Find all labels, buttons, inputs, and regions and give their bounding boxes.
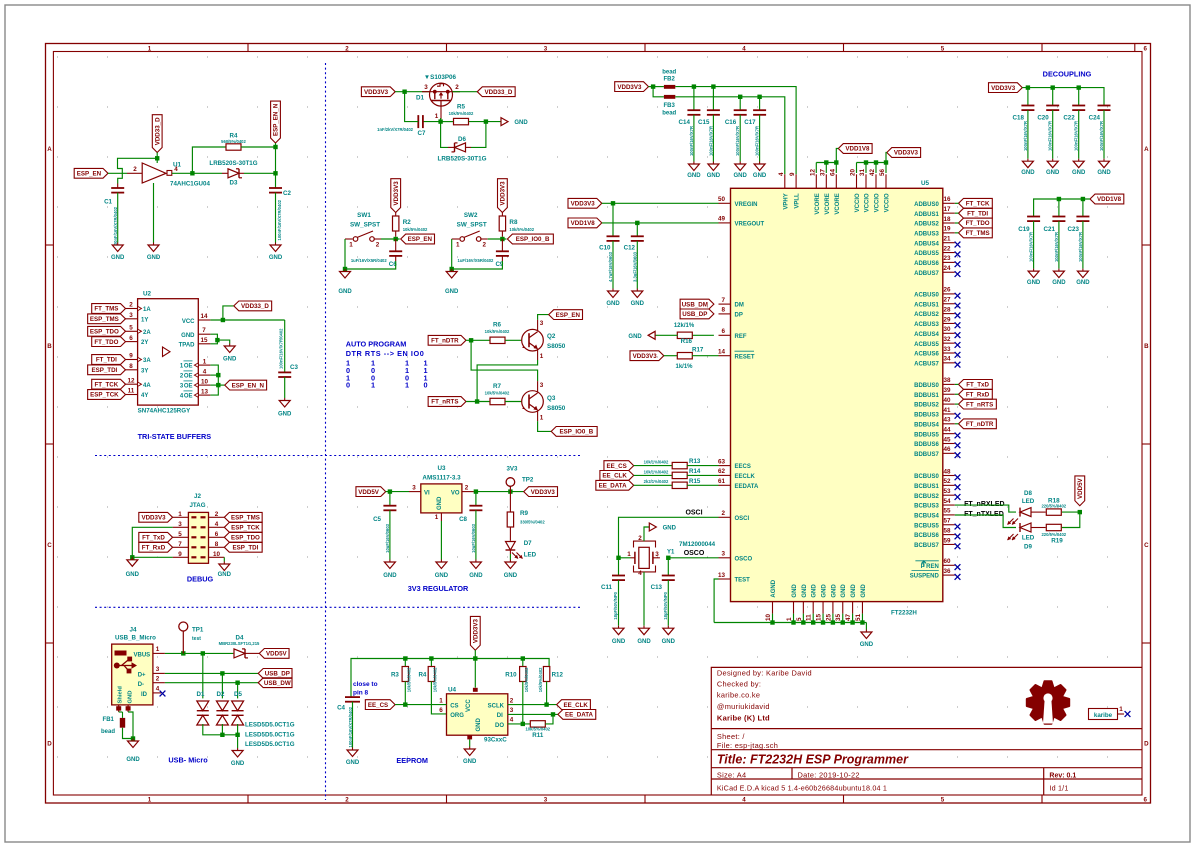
svg-text:DP: DP bbox=[735, 313, 743, 319]
J2 pin 2 lead right bbox=[209, 516, 225, 518]
wire gnd pin drop bbox=[842, 614, 844, 623]
wire U5 bottom gnd rail bbox=[714, 622, 866, 624]
svg-text:USB_DM: USB_DM bbox=[682, 301, 708, 308]
svg-text:A: A bbox=[1144, 146, 1149, 153]
ground below D7 bbox=[509, 560, 511, 563]
svg-text:RESET: RESET bbox=[735, 354, 755, 360]
svg-text:3V3: 3V3 bbox=[506, 466, 518, 473]
svg-text:BDBUS4: BDBUS4 bbox=[914, 422, 939, 428]
svg-text:VCCIO: VCCIO bbox=[885, 193, 891, 212]
svg-text:ACBUS0: ACBUS0 bbox=[914, 293, 939, 299]
U5 pin 61 EEDATA bbox=[719, 484, 731, 486]
svg-text:C24: C24 bbox=[1089, 115, 1101, 122]
wire C6 to gnd rail bbox=[395, 256, 397, 261]
U5 pin 22 ADBUS5 bbox=[943, 252, 955, 254]
svg-text:C8: C8 bbox=[459, 516, 467, 523]
J4 bottom pin stubs bbox=[116, 706, 121, 710]
U5 pin 37 VCORE bbox=[825, 174, 827, 188]
svg-text:VDD3V3: VDD3V3 bbox=[633, 353, 658, 360]
wire VCORE drop bbox=[835, 163, 837, 174]
U2 pin 3 1Y with label ESP_TMS bbox=[126, 318, 138, 320]
svg-text:1uF/16V/X5R/0402: 1uF/16V/X5R/0402 bbox=[351, 258, 388, 263]
wire C12 to GND bbox=[636, 241, 638, 289]
svg-text:S8050: S8050 bbox=[547, 405, 566, 412]
ground below C4 bbox=[352, 748, 354, 751]
ground below C1 bbox=[117, 243, 119, 246]
wire R10 to DO bbox=[522, 681, 524, 724]
ground below C23 bbox=[1082, 269, 1084, 272]
junction D2 drop bbox=[220, 671, 224, 675]
resistor R14 bbox=[672, 472, 687, 478]
svg-text:11: 11 bbox=[806, 614, 813, 621]
svg-text:3: 3 bbox=[412, 484, 416, 491]
svg-text:karibe.co.ke: karibe.co.ke bbox=[717, 691, 760, 700]
LED D9 bbox=[1020, 523, 1031, 532]
ground below J4 bbox=[132, 739, 134, 742]
U5 pin 55 BCBUS4 bbox=[943, 514, 955, 516]
svg-text:ACBUS2: ACBUS2 bbox=[914, 312, 939, 318]
junction VCC bbox=[221, 318, 225, 322]
junction C17 bbox=[757, 95, 761, 99]
resistor R16 REF bbox=[692, 334, 714, 336]
svg-text:15: 15 bbox=[815, 613, 822, 621]
svg-text:TRI-STATE BUFFERS: TRI-STATE BUFFERS bbox=[138, 432, 212, 441]
svg-text:AMS1117-3.3: AMS1117-3.3 bbox=[422, 475, 461, 482]
svg-text:C13: C13 bbox=[651, 584, 663, 591]
wire VCORE drop bbox=[825, 163, 827, 174]
svg-text:100nF/16V/X7R: 100nF/16V/X7R bbox=[1099, 121, 1104, 151]
svg-text:GND: GND bbox=[126, 572, 140, 578]
glabel FT_TDO at ADBUS2 bbox=[959, 218, 993, 228]
wire VCORE drop bbox=[815, 163, 817, 174]
svg-text:C20: C20 bbox=[1037, 115, 1049, 122]
svg-text:FB2: FB2 bbox=[664, 77, 676, 83]
svg-text:VDD1V8: VDD1V8 bbox=[1097, 196, 1122, 203]
U5 pin 45 BDBUS6 bbox=[943, 443, 955, 445]
svg-text:50: 50 bbox=[718, 196, 726, 203]
svg-text:MBR230LSFT1G,215: MBR230LSFT1G,215 bbox=[219, 641, 260, 646]
J2 pin 6 lead right bbox=[209, 536, 225, 538]
svg-text:45: 45 bbox=[943, 436, 951, 443]
U5 pin 19 ADBUS3 bbox=[943, 232, 955, 234]
svg-text:LED: LED bbox=[1022, 535, 1035, 542]
svg-text:1: 1 bbox=[371, 381, 375, 390]
svg-text:C19: C19 bbox=[1018, 226, 1030, 233]
svg-text:OSCI: OSCI bbox=[735, 516, 750, 522]
U5 pin 51 GND bbox=[861, 602, 863, 614]
frame column ticks bbox=[247, 44, 249, 52]
svg-text:0: 0 bbox=[346, 381, 350, 390]
diode D6 LRB520S-30T1G bbox=[455, 143, 466, 152]
svg-text:close to: close to bbox=[353, 681, 378, 688]
resistor R17 RESET bbox=[630, 351, 664, 361]
svg-text:GND: GND bbox=[383, 573, 397, 579]
wire FT_nDTR to R6 bbox=[466, 339, 490, 341]
U2 pin 13 4OE bbox=[198, 394, 210, 396]
ground below C17 bbox=[759, 162, 761, 165]
svg-text:100nF/16V/X7R: 100nF/16V/X7R bbox=[1074, 121, 1079, 151]
svg-text:TP2: TP2 bbox=[522, 477, 534, 484]
svg-text:D3: D3 bbox=[230, 180, 238, 187]
svg-text:R19: R19 bbox=[1051, 538, 1063, 545]
Q1 gate lead down bbox=[440, 106, 442, 119]
svg-text:GND: GND bbox=[338, 289, 352, 295]
svg-text:1A: 1A bbox=[143, 307, 151, 313]
U5 pin 42 VCCIO bbox=[875, 174, 877, 188]
svg-text:Q3: Q3 bbox=[547, 395, 556, 402]
wire U1 output bbox=[172, 172, 192, 174]
ground below crystal bbox=[643, 626, 645, 629]
svg-text:VDD5V: VDD5V bbox=[266, 651, 288, 658]
U5 pin 26 ACBUS0 bbox=[943, 293, 955, 295]
wire gnd pin drop bbox=[822, 614, 824, 623]
junction VDD5V led bbox=[1078, 510, 1082, 514]
svg-text:R12: R12 bbox=[552, 672, 564, 679]
svg-text:▼S103P06: ▼S103P06 bbox=[424, 74, 457, 81]
transistor Q3 S8050 bbox=[522, 391, 544, 413]
wire C22 to GND bbox=[1078, 110, 1080, 159]
svg-text:D: D bbox=[1144, 741, 1149, 748]
svg-text:ACBUS6: ACBUS6 bbox=[914, 352, 939, 358]
pin 2 lead of U1 bbox=[127, 172, 142, 174]
junction C10 bbox=[611, 201, 615, 205]
svg-text:1nF/2kV/X7R/0402: 1nF/2kV/X7R/0402 bbox=[377, 127, 414, 132]
wire D2 vertical bbox=[221, 673, 223, 698]
svg-text:U5: U5 bbox=[921, 180, 930, 187]
svg-text:100nF/16V/X7R: 100nF/16V/X7R bbox=[689, 126, 694, 156]
wire C23 to GND bbox=[1082, 221, 1084, 269]
wire decoupling 1v8 rail bbox=[1034, 199, 1090, 217]
svg-text:4: 4 bbox=[510, 717, 514, 724]
svg-text:GND: GND bbox=[223, 357, 237, 363]
svg-text:BCBUS6: BCBUS6 bbox=[914, 533, 939, 539]
ground below C10 bbox=[612, 289, 614, 292]
svg-text:16: 16 bbox=[943, 196, 951, 203]
svg-text:59: 59 bbox=[943, 537, 951, 544]
svg-text:74AHC1GU04: 74AHC1GU04 bbox=[170, 181, 210, 188]
svg-text:C5: C5 bbox=[373, 516, 381, 523]
svg-text:FT_nRTS: FT_nRTS bbox=[966, 401, 993, 408]
wire OSCI net bbox=[619, 517, 719, 558]
resistor R3 bbox=[404, 659, 406, 667]
wires OE bus bbox=[210, 365, 218, 395]
svg-text:4: 4 bbox=[156, 686, 160, 693]
svg-text:2: 2 bbox=[345, 797, 349, 804]
glabel FT_nRTS at BDBUS2 bbox=[959, 399, 997, 409]
svg-text:2: 2 bbox=[465, 484, 469, 491]
svg-text:27: 27 bbox=[943, 297, 951, 304]
svg-text:BDBUS3: BDBUS3 bbox=[914, 413, 939, 419]
svg-text:BCBUS1: BCBUS1 bbox=[914, 484, 939, 490]
ferrite bead FB2 bbox=[664, 85, 675, 89]
svg-text:GND: GND bbox=[218, 572, 232, 578]
TVS diode D1 bbox=[197, 701, 209, 711]
U2 pin 5 2A with label ESP_TDO bbox=[126, 330, 138, 332]
svg-text:FT_TDI: FT_TDI bbox=[96, 357, 117, 364]
capacitor C4 bbox=[345, 696, 360, 698]
wire J2 pin3 to GND bbox=[132, 527, 172, 557]
capacitor C5 bbox=[389, 492, 391, 506]
svg-text:10k/5%/0402: 10k/5%/0402 bbox=[509, 227, 534, 232]
svg-text:VCORE: VCORE bbox=[815, 193, 821, 214]
U2 pin 9 3A with label FT_TDI bbox=[126, 359, 138, 361]
resistor R10 bbox=[522, 659, 524, 667]
svg-text:EE_CLK: EE_CLK bbox=[602, 473, 627, 480]
connector J2 JTAG body bbox=[188, 512, 208, 563]
svg-text:ACBUS1: ACBUS1 bbox=[914, 302, 939, 308]
svg-text:4: 4 bbox=[742, 797, 746, 804]
svg-text:SUSPEND: SUSPEND bbox=[910, 574, 940, 580]
U5 pin 11 GND bbox=[812, 602, 814, 614]
junction R10 top bbox=[521, 656, 525, 660]
U2 pin 6 2Y with label FT_TDO bbox=[126, 341, 138, 343]
glabel ESP_TDO at J2 pin6 bbox=[224, 532, 262, 542]
svg-text:C10: C10 bbox=[599, 245, 611, 252]
svg-text:D7: D7 bbox=[524, 540, 532, 547]
wire C1 to GND bbox=[117, 193, 119, 243]
svg-text:R3: R3 bbox=[391, 672, 399, 679]
junction C15 bbox=[711, 84, 715, 88]
wire FB1 to gnd rail bbox=[123, 728, 134, 739]
resistor R13 bbox=[672, 462, 687, 468]
svg-text:DEBUG: DEBUG bbox=[187, 575, 214, 584]
junction R5 right bbox=[484, 119, 488, 123]
glabel VDD3V3 decoupling bbox=[989, 83, 1023, 93]
svg-text:Q2: Q2 bbox=[547, 333, 556, 340]
power label VDD5V at leds bbox=[1075, 476, 1085, 506]
U5 pin 48 BCBUS0 bbox=[943, 475, 955, 477]
tri-state buffer U2 body bbox=[138, 299, 199, 405]
svg-text:2: 2 bbox=[129, 302, 133, 309]
capacitor C8 bbox=[475, 492, 477, 506]
wire C3 to GND bbox=[284, 377, 286, 398]
U5 pin 21 ADBUS4 bbox=[943, 242, 955, 244]
capacitor C19 bbox=[1027, 216, 1040, 218]
svg-text:4Y: 4Y bbox=[141, 393, 148, 399]
glabel USB_DP to DP bbox=[680, 309, 714, 319]
svg-text:C: C bbox=[1144, 542, 1149, 549]
svg-text:100nF/16V/X7R: 100nF/16V/X7R bbox=[1054, 232, 1059, 262]
svg-text:GND: GND bbox=[278, 412, 292, 418]
svg-text:DI: DI bbox=[497, 713, 503, 719]
wire C4 to GND bbox=[352, 702, 354, 748]
wire BCBUS4 to D9 bbox=[955, 515, 1016, 528]
U5 pin 46 BDBUS7 bbox=[943, 452, 955, 454]
svg-text:62: 62 bbox=[718, 468, 726, 475]
U5 pin 31 VCCIO bbox=[865, 174, 867, 188]
svg-text:220/5%/0402: 220/5%/0402 bbox=[1041, 532, 1066, 537]
svg-text:20: 20 bbox=[850, 168, 857, 176]
svg-text:10uF/16V/0603: 10uF/16V/0603 bbox=[385, 523, 390, 553]
svg-text:42: 42 bbox=[869, 168, 876, 176]
U5 pin 36 SUSPEND bbox=[943, 574, 955, 576]
svg-text:ESP_EN: ESP_EN bbox=[408, 236, 433, 243]
wire TEST to gnd rail bbox=[714, 579, 718, 623]
junction C5 bbox=[388, 489, 392, 493]
svg-text:1: 1 bbox=[540, 415, 544, 422]
svg-text:14: 14 bbox=[718, 349, 726, 356]
frame row ticks bbox=[46, 244, 54, 246]
wire R18 to VDD5V bbox=[1062, 511, 1080, 513]
wire R17 to RESET bbox=[692, 355, 719, 357]
svg-text:41: 41 bbox=[943, 407, 951, 414]
wire gnd pin drop bbox=[832, 614, 834, 623]
wire R13 to EECS bbox=[687, 465, 719, 467]
svg-text:C18: C18 bbox=[1013, 115, 1025, 122]
capacitor C7 bbox=[417, 115, 419, 128]
svg-text:C7: C7 bbox=[418, 130, 426, 137]
svg-text:R4: R4 bbox=[418, 672, 426, 679]
svg-text:25: 25 bbox=[825, 613, 832, 621]
svg-text:44: 44 bbox=[943, 426, 951, 433]
resistor R12 bbox=[547, 666, 550, 668]
svg-text:GND: GND bbox=[831, 584, 837, 598]
wire FB3 rail to VPHY bbox=[675, 97, 785, 175]
resistor R6 bbox=[490, 337, 505, 343]
svg-text:Id 1/1: Id 1/1 bbox=[1049, 784, 1068, 793]
svg-text:54: 54 bbox=[943, 498, 951, 505]
svg-text:BDBUS2: BDBUS2 bbox=[914, 403, 939, 409]
ground at J2 right bbox=[223, 562, 225, 565]
ground below SW1 bbox=[344, 269, 346, 272]
junction J2 gnd bbox=[130, 555, 134, 559]
svg-text:10k/5%/0402: 10k/5%/0402 bbox=[485, 329, 510, 334]
svg-text:26: 26 bbox=[943, 287, 951, 294]
glabel ESP_EN at Q2 bbox=[549, 310, 583, 320]
svg-text:USB_DW: USB_DW bbox=[264, 680, 291, 687]
svg-text:ESP_TCK: ESP_TCK bbox=[231, 525, 260, 532]
svg-text:C16: C16 bbox=[725, 119, 737, 126]
svg-text:FT_nDTR: FT_nDTR bbox=[966, 421, 994, 428]
svg-text:Sheet: /: Sheet: / bbox=[717, 732, 746, 741]
svg-text:Title: FT2232H ESP Programmer: Title: FT2232H ESP Programmer bbox=[717, 753, 909, 767]
wires TVS to gnd rail bbox=[203, 724, 238, 748]
U5 pin 15 GND bbox=[822, 602, 824, 614]
junction C14 bbox=[692, 84, 696, 88]
svg-text:15: 15 bbox=[200, 337, 208, 344]
svg-text:VREGOUT: VREGOUT bbox=[735, 222, 765, 228]
wire C13 to GND bbox=[667, 580, 669, 626]
schematic frame inner bbox=[53, 52, 1142, 796]
glabel FT_TxD at J2 pin5 bbox=[139, 532, 173, 542]
svg-text:28: 28 bbox=[943, 306, 951, 313]
svg-text:7M12000044: 7M12000044 bbox=[679, 541, 716, 548]
svg-text:1: 1 bbox=[456, 242, 460, 249]
svg-text:13: 13 bbox=[718, 572, 726, 579]
svg-text:GND: GND bbox=[514, 120, 528, 126]
svg-text:FT_TDI: FT_TDI bbox=[967, 210, 988, 217]
U5 pin 34 ACBUS7 bbox=[943, 362, 955, 364]
wire gnd pin drop bbox=[852, 614, 854, 623]
wire C20 to GND bbox=[1052, 110, 1054, 159]
U2 pin 14 VCC bbox=[198, 319, 210, 321]
ground flag right at crystal bbox=[649, 523, 656, 531]
svg-text:7: 7 bbox=[178, 541, 182, 548]
J2 pin 5 lead left bbox=[173, 536, 189, 538]
svg-text:USB_DP: USB_DP bbox=[682, 311, 707, 318]
glabel FT_nRTS bbox=[428, 397, 466, 407]
U5 pin 53 BCBUS2 bbox=[943, 494, 955, 496]
svg-text:GND: GND bbox=[637, 639, 651, 645]
svg-text:LESD5D5.0CT1G: LESD5D5.0CT1G bbox=[245, 741, 295, 748]
svg-text:D1: D1 bbox=[197, 691, 205, 698]
svg-text:DM: DM bbox=[735, 303, 744, 309]
svg-text:63: 63 bbox=[718, 458, 726, 465]
wire R6 to Q2 base bbox=[505, 339, 521, 341]
svg-text:10k/1%/0402: 10k/1%/0402 bbox=[644, 469, 669, 474]
svg-text:ACBUS7: ACBUS7 bbox=[914, 361, 939, 367]
svg-text:R6: R6 bbox=[493, 322, 502, 329]
glabel EE_DATA bbox=[558, 710, 596, 720]
svg-text:10k/5%/0402: 10k/5%/0402 bbox=[433, 667, 438, 692]
svg-text:AGND: AGND bbox=[771, 579, 777, 597]
svg-text:B: B bbox=[47, 343, 52, 350]
svg-text:DO: DO bbox=[495, 723, 504, 729]
svg-text:VDD33_D: VDD33_D bbox=[241, 303, 269, 310]
U5 pin 1 GND bbox=[793, 602, 795, 614]
svg-text:TPAD: TPAD bbox=[179, 343, 196, 349]
J2 pin 1 lead left bbox=[173, 516, 189, 518]
ground below C22 bbox=[1078, 159, 1080, 162]
svg-text:BDBUS7: BDBUS7 bbox=[914, 452, 939, 458]
svg-text:10k/5%/0402: 10k/5%/0402 bbox=[485, 390, 510, 395]
wire gnd pin drop bbox=[802, 614, 804, 623]
svg-text:R13: R13 bbox=[689, 458, 701, 465]
resistor R15 bbox=[672, 482, 687, 488]
svg-text:D-: D- bbox=[138, 682, 144, 688]
svg-text:FT_nRTS: FT_nRTS bbox=[431, 399, 458, 406]
svg-text:D1: D1 bbox=[416, 95, 425, 102]
svg-text:220/5%/0402: 220/5%/0402 bbox=[1041, 504, 1066, 509]
wire R12 to SCLK bbox=[546, 681, 548, 704]
svg-text:VCCIO: VCCIO bbox=[875, 193, 881, 212]
svg-text:GND: GND bbox=[1046, 170, 1060, 176]
section divider horizontal dashed lower bbox=[95, 606, 580, 608]
svg-text:GND: GND bbox=[753, 173, 767, 179]
wire EE_DATA to R15 bbox=[634, 484, 673, 486]
wire Q2 emitter to FT_nRTS junction bbox=[477, 360, 537, 402]
svg-text:ADBUS1: ADBUS1 bbox=[914, 212, 939, 218]
svg-text:karibe: karibe bbox=[1094, 712, 1113, 719]
wire J4 GND pin down bbox=[128, 712, 133, 739]
regulator U3 AMS1117-3.3 body bbox=[421, 484, 462, 513]
svg-text:1: 1 bbox=[203, 358, 207, 365]
svg-text:BCBUS2: BCBUS2 bbox=[914, 494, 939, 500]
svg-text:VDD33_D: VDD33_D bbox=[154, 117, 161, 145]
glabel USB_DM to DM bbox=[680, 299, 714, 309]
crystal Y1 7M12000044 bbox=[639, 547, 650, 568]
wire U1 gnd pin to GND bbox=[153, 183, 155, 243]
svg-text:4.7uF/16V/0603: 4.7uF/16V/0603 bbox=[608, 251, 613, 282]
glabel ESP_IO0_B bbox=[507, 234, 553, 244]
svg-text:17: 17 bbox=[943, 206, 951, 213]
capacitor C17 bbox=[759, 97, 761, 110]
svg-text:100nF/16V/X7R/0402: 100nF/16V/X7R/0402 bbox=[277, 199, 282, 240]
svg-text:ESP_EN_N: ESP_EN_N bbox=[273, 103, 280, 136]
svg-text:2: 2 bbox=[721, 510, 725, 517]
LED D7 vertical bbox=[506, 542, 516, 551]
wire C19 to GND bbox=[1033, 221, 1035, 269]
power label VDD3V3 above EEPROM bbox=[470, 616, 480, 650]
svg-text:C2: C2 bbox=[283, 190, 291, 197]
transistor Q1 S103P06 pmos bbox=[430, 83, 453, 106]
svg-text:VI: VI bbox=[424, 491, 430, 497]
svg-text:SW_SPST: SW_SPST bbox=[457, 222, 487, 229]
wire BCBUS3 to D8 bbox=[955, 505, 1016, 512]
svg-text:OE: OE bbox=[184, 364, 193, 370]
svg-text:GND: GND bbox=[606, 301, 620, 307]
wire VCCIO drop bbox=[885, 163, 887, 174]
